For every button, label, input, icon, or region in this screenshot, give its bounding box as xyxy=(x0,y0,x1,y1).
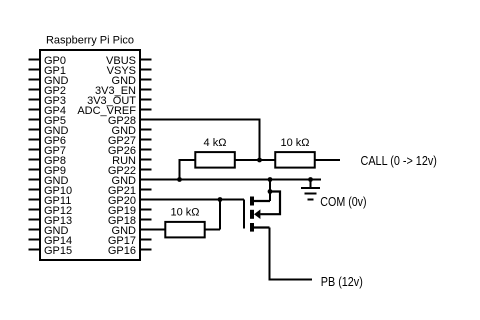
resistor R2 body (10 kOhm) xyxy=(275,152,315,168)
resistor R2 right lead wire to CALL xyxy=(315,159,340,161)
pin right 5 (3V3_OUT) xyxy=(87,95,151,107)
wire Q1 drain up to body junction xyxy=(269,192,271,202)
svg-text:GP15: GP15 xyxy=(44,245,72,257)
junction dot Q1 drain/body tie xyxy=(268,189,273,194)
svg-text:10 kΩ: 10 kΩ xyxy=(280,137,309,149)
resistor R3 left lead wire to GND pin xyxy=(140,229,165,231)
resistor R2 left lead wire xyxy=(260,159,276,161)
pin left 5 (GP3) xyxy=(29,95,67,107)
wire Q1 source to PB xyxy=(270,228,313,280)
pin right 20 (GP16) xyxy=(108,245,152,257)
svg-text:GP16: GP16 xyxy=(108,245,136,257)
pin right 4 (3V3_EN) xyxy=(95,85,151,97)
pin left 8 (GND) xyxy=(29,125,69,137)
junction node A dot xyxy=(257,158,262,163)
pin right 6 (ADC_VREF) xyxy=(77,105,151,117)
pin right 3 (GND) xyxy=(112,75,152,87)
pin right 9 (GP27) xyxy=(108,135,152,147)
svg-text:4 kΩ: 4 kΩ xyxy=(204,137,227,149)
transistor Q1 channel segment bottom xyxy=(250,223,254,232)
svg-text:COM (0v): COM (0v) xyxy=(320,194,366,209)
pin right 13 (GND) xyxy=(112,175,152,187)
ground symbol (COM) xyxy=(301,180,320,200)
pin right 7 (GP28) xyxy=(108,115,152,127)
pin right 1 (VBUS) xyxy=(106,55,151,67)
wire R3 to GP20 junction xyxy=(219,200,221,230)
pin right 8 (GND) xyxy=(112,125,152,137)
svg-text:PB (12v): PB (12v) xyxy=(321,274,363,289)
svg-text:Raspberry Pi Pico: Raspberry Pi Pico xyxy=(46,35,134,47)
pin left 9 (GP6) xyxy=(29,135,67,147)
pin right 16 (GP19) xyxy=(108,205,152,217)
pin left 11 (GP8) xyxy=(29,155,67,167)
pin left 3 (GND) xyxy=(29,75,69,87)
transistor Q1 gate bar xyxy=(243,200,245,229)
resistor R1 body (4 kOhm) xyxy=(195,152,235,168)
wire Q1 body bracket xyxy=(260,192,280,215)
pin right 19 (GP17) xyxy=(108,235,152,247)
pin left 17 (GP13) xyxy=(29,215,73,227)
transistor Q1 drain stub xyxy=(253,200,270,202)
transistor Q1 source stub xyxy=(253,226,270,228)
transistor Q1 body arrow xyxy=(254,209,260,219)
pin left 18 (GND) xyxy=(29,225,69,237)
pin left 6 (GP4) xyxy=(29,105,67,117)
IC U1 Raspberry Pi Pico body xyxy=(40,50,140,260)
svg-text:10 kΩ: 10 kΩ xyxy=(170,207,199,219)
pin left 13 (GND) xyxy=(29,175,69,187)
junction dot GND/ground symbol xyxy=(308,177,313,182)
resistor R3 body (10 kOhm pull-down) xyxy=(165,222,204,238)
resistor R1 right lead wire xyxy=(235,159,260,161)
pin left 12 (GP9) xyxy=(29,165,67,177)
pin right 2 (VSYS) xyxy=(107,65,152,77)
svg-text:CALL (0 -> 12v): CALL (0 -> 12v) xyxy=(361,153,437,168)
transistor Q1 channel segment middle xyxy=(250,210,254,219)
pin right 10 (GP26) xyxy=(108,145,152,157)
wire GP20 to Q1 gate xyxy=(140,199,244,201)
wire GND bus xyxy=(140,179,321,181)
junction dot GP20/R3 xyxy=(218,197,223,202)
pin left 1 (GP0) xyxy=(29,55,67,67)
pin left 15 (GP11) xyxy=(29,195,72,207)
resistor R3 right lead wire xyxy=(205,229,220,231)
pin right 17 (GP18) xyxy=(108,215,152,227)
pin right 11 (RUN) xyxy=(112,155,151,167)
pin right 15 (GP20) xyxy=(108,195,152,207)
transistor Q1 channel segment top xyxy=(250,197,254,206)
resistor R1 left lead wire to GND bus xyxy=(180,160,196,180)
pin left 20 (GP15) xyxy=(29,245,73,257)
pin right 12 (GP22) xyxy=(108,165,152,177)
pin right 14 (GP21) xyxy=(108,185,152,197)
pin left 4 (GP2) xyxy=(29,85,67,97)
pin left 2 (GP1) xyxy=(29,65,67,77)
pin right 18 (GND) xyxy=(112,225,152,237)
pin left 19 (GP14) xyxy=(29,235,73,247)
pin left 16 (GP12) xyxy=(29,205,73,217)
pin left 7 (GP5) xyxy=(29,115,67,127)
wire GP28 to node A xyxy=(140,120,260,161)
wire body tie junction to GND bus xyxy=(269,180,271,192)
pin left 14 (GP10) xyxy=(29,185,73,197)
junction dot GND/R1 xyxy=(177,177,182,182)
pin left 10 (GP7) xyxy=(29,145,67,157)
junction dot GND/Q1 drain branch xyxy=(268,177,273,182)
